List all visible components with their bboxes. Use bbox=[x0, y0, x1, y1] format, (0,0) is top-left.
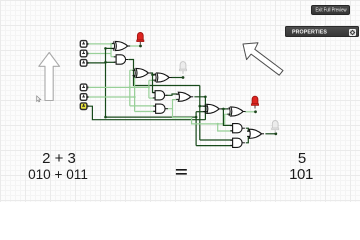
wire AND3 output (high) to OR1 input 2 bbox=[167, 100, 178, 109]
LED D1 sum0=1 (lit red) bbox=[137, 32, 144, 44]
annotation: mouse cursor glyph bbox=[37, 96, 41, 102]
caption: decimal result bbox=[272, 150, 332, 167]
XOR gate U1 (sum bit 0) bbox=[112, 41, 130, 50]
AND gate U10 bbox=[230, 124, 245, 133]
PROPERTIES panel header bbox=[285, 26, 359, 37]
wire net A0: switch S3 output (low) bbox=[87, 62, 106, 64]
wire AND4 output to OR2 input 1 (low) bbox=[246, 128, 251, 131]
caption: decimal expression bbox=[0, 150, 118, 167]
XOR gate U8 bbox=[203, 104, 221, 113]
caption: binary expression bbox=[0, 167, 116, 182]
wire branch B0 vertical to AND1 input 1 bbox=[110, 44, 112, 57]
wire XOR1 output to LED1 (high) bbox=[128, 45, 141, 47]
toggle switch S4 bbox=[80, 84, 88, 91]
wire OR2 output (low) to LED4 bbox=[265, 133, 275, 135]
wire net from switch S2 (high) bbox=[87, 53, 111, 55]
wire riser x=196.1 to XOR4 input 2 and AND5 input 2 bbox=[195, 112, 197, 146]
XOR gate U4 (sum bit 1) bbox=[153, 73, 171, 82]
wire AND1 output (low) down and right long run y=85.5 bbox=[129, 60, 200, 86]
Properties panel grip bbox=[314, 25, 324, 27]
wire A0 to XOR1 input 2 bbox=[106, 47, 115, 49]
AND gate U2 (carry bit 0) bbox=[114, 55, 129, 64]
wire AND5 output to OR2 input 2 (low) bbox=[246, 137, 251, 143]
AND gate U6 bbox=[153, 104, 168, 113]
wire vertical riser x=199.8 feeding XOR4 input 1 and AND5 input 1 bbox=[199, 86, 201, 141]
Exit Full Preview button bbox=[311, 5, 350, 15]
wire long low run y=117.1 to bit-2 column bbox=[106, 116, 197, 118]
wire net B0: switch S1 output to XOR1 input 1 (high) bbox=[87, 43, 114, 45]
wire XOR3 output to LED2 (low) bbox=[171, 77, 183, 79]
OR gate U12 (carry out) bbox=[247, 129, 264, 138]
AND gate U5 bbox=[153, 91, 168, 100]
wire branch down to AND4 input 2 bbox=[218, 124, 232, 131]
XOR gate U3 bbox=[133, 68, 151, 77]
wire A0 to AND1 input 2 bbox=[106, 61, 116, 63]
gear button bbox=[349, 29, 356, 36]
toggle switch S1 bbox=[80, 41, 88, 48]
toggle switch S2 bbox=[80, 50, 88, 57]
wire XOR5 output (high) to LED3 bbox=[245, 111, 256, 113]
wire XOR4 output (low) to XOR5 input 1 and down to AND4 input 1 bbox=[221, 108, 228, 110]
wire OR1 output (low) down riser x=205.4 joining y=119.7 run bbox=[194, 97, 205, 120]
caption: equals sign bbox=[175, 164, 188, 181]
wire net from switch S6 (low): down to long run y=119.7 bbox=[87, 106, 205, 120]
wire XOR2 output (low) to XOR3 input 1 and AND2 input 1 bbox=[150, 73, 154, 93]
wire A0 vertical bus x=105.5 bbox=[105, 48, 107, 117]
wire net S5 (high): to XOR2 input 2 and AND3 input 2 bbox=[87, 96, 135, 98]
XOR gate U9 (sum bit 2) bbox=[227, 107, 245, 116]
toggle switch S5 bbox=[80, 94, 88, 101]
wire net S4 (high): to XOR2 input 1 and AND3 input 1 bbox=[87, 86, 149, 88]
LED D3 sum2=1 (lit red) bbox=[251, 96, 258, 108]
AND gate U11 bbox=[230, 138, 245, 147]
toggle switch S6 bbox=[80, 103, 88, 110]
annotation: large up arrow outline bbox=[39, 53, 60, 101]
wire carry high staircase to XOR5 input 2 and AND4 input 2 bbox=[173, 109, 232, 124]
LED D4 carry=0 (off gray) bbox=[272, 121, 279, 133]
wire B0 into AND1 input 1 bbox=[111, 56, 115, 58]
wire net S4 branch: XOR3 input 2 and AND2 input 2 (high) bbox=[148, 80, 150, 98]
wire AND2 output to OR1 input 1 (low) bbox=[166, 94, 177, 95]
caption: binary result bbox=[271, 166, 331, 183]
OR gate U7 (carry bit 1) bbox=[176, 92, 193, 101]
annotation: large diagonal arrow pointing up-left bbox=[243, 43, 283, 75]
toggle switch S3 bbox=[80, 60, 88, 67]
LED D2 sum1=0 (off gray) bbox=[179, 62, 186, 74]
